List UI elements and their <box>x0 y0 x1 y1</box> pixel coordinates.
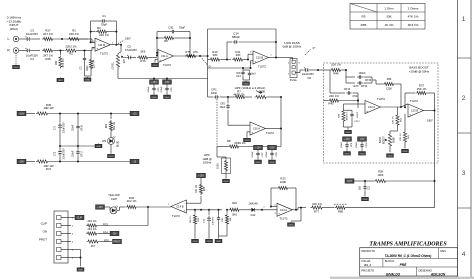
svg-text:+: + <box>96 47 98 51</box>
svg-text:47nF: 47nF <box>352 95 358 98</box>
svg-text:R47: R47 <box>46 167 52 171</box>
svg-text:2K7 1%: 2K7 1% <box>43 32 53 36</box>
svg-text:CLIP: CLIP <box>111 197 117 201</box>
svg-text:120K: 120K <box>386 88 392 91</box>
svg-text:22K 1%: 22K 1% <box>99 33 109 37</box>
phase dashed low pass out <box>305 49 311 55</box>
svg-text:1 Ohm: 1 Ohm <box>384 6 394 10</box>
svg-text:10K 1%: 10K 1% <box>393 116 395 124</box>
ground C31 <box>364 195 366 198</box>
svg-text:180°: 180° <box>427 119 433 123</box>
resistor R40 to ground <box>59 51 61 56</box>
resistor R46 <box>324 69 331 71</box>
svg-text:-15V: -15V <box>359 138 364 141</box>
svg-text:C4: C4 <box>30 57 34 61</box>
resistor R32 <box>117 209 120 211</box>
svg-text:C31: C31 <box>369 185 371 190</box>
svg-text:BLUE: BLUE <box>118 141 120 147</box>
ground stub C14A out <box>300 208 302 221</box>
svg-text:GND: GND <box>78 270 83 272</box>
resistor R36 clip ref <box>200 196 202 203</box>
capacitor C17 hang <box>218 210 220 216</box>
svg-text:GND: GND <box>165 97 170 99</box>
title block table <box>360 248 458 276</box>
svg-text:+: + <box>366 109 368 113</box>
level potentiometer 22K <box>116 54 119 69</box>
svg-text:C10 B: C10 B <box>256 56 263 60</box>
capacitor C71 <box>59 114 61 123</box>
wire L input <box>19 38 25 40</box>
svg-text:5K6: 5K6 <box>232 213 237 217</box>
svg-text:+15V: +15V <box>151 81 157 84</box>
op-amp C14 B flip <box>171 200 186 213</box>
capacitor C14 <box>226 42 228 60</box>
svg-text:2K2 1%: 2K2 1% <box>87 219 97 223</box>
svg-text:22K: 22K <box>123 58 126 63</box>
svg-text:47K 1%: 47K 1% <box>408 15 419 19</box>
svg-text:2K2 1%: 2K2 1% <box>87 227 97 231</box>
svg-text:+15V: +15V <box>198 175 204 178</box>
decoupling CP8 <box>268 145 277 150</box>
svg-text:47uF/25V: 47uF/25V <box>125 48 137 52</box>
svg-text:-: - <box>278 205 279 209</box>
svg-text:-: - <box>96 39 97 43</box>
op-amp C13 B <box>408 104 423 117</box>
decoupling CP7 <box>254 145 263 150</box>
svg-text:R8: R8 <box>227 139 231 143</box>
svg-text:CP16: CP16 <box>82 124 84 130</box>
svg-text:+: + <box>278 212 280 216</box>
output wire C14A <box>292 209 298 211</box>
connector pin 4 <box>57 240 62 244</box>
resistor R22 hang <box>226 210 228 213</box>
svg-text:CP14: CP14 <box>344 88 351 91</box>
ground LED <box>110 144 112 153</box>
bass boost dashed box <box>324 63 439 163</box>
svg-text:C14 B: C14 B <box>176 205 183 209</box>
svg-text:GND: GND <box>207 241 212 243</box>
svg-text:C91: C91 <box>168 26 174 30</box>
svg-text:C71: C71 <box>55 125 57 130</box>
capacitor CP12 <box>351 110 353 112</box>
svg-text:4u7F: 4u7F <box>353 85 359 88</box>
svg-text:OUT: OUT <box>347 180 353 183</box>
capacitor CP14 <box>329 70 331 93</box>
svg-text:+10dB @ 50Hz: +10dB @ 50Hz <box>409 69 430 73</box>
svg-text:33K: 33K <box>236 53 241 57</box>
phase label 0 first <box>202 59 207 65</box>
connector pin 1 <box>57 216 62 220</box>
svg-text:PROT: PROT <box>39 238 47 242</box>
svg-text:R5: R5 <box>164 39 168 43</box>
capacitor C12 3n3 <box>249 70 251 71</box>
LED ON blue <box>108 138 115 145</box>
svg-text:ON: ON <box>102 139 106 143</box>
svg-text:10K 1%: 10K 1% <box>196 185 198 193</box>
svg-text:GND: GND <box>224 181 229 183</box>
connector pin 5 <box>57 248 62 252</box>
wires C14B inputs <box>186 202 201 204</box>
capacitor C13 5n6 <box>242 68 244 70</box>
svg-text:10R 1W: 10R 1W <box>43 106 53 110</box>
svg-text:GND: GND <box>403 151 408 153</box>
svg-text:C12 A: C12 A <box>368 105 375 109</box>
resistor R47 power <box>36 160 49 163</box>
svg-text:GND: GND <box>193 241 198 243</box>
op-amp C14 A <box>277 203 292 216</box>
svg-text:4K99 1%: 4K99 1% <box>347 112 349 121</box>
svg-text:GND: GND <box>96 146 101 148</box>
op-amp C10 B <box>247 54 249 59</box>
net label clip out <box>96 205 105 210</box>
svg-text:R28: R28 <box>45 57 51 61</box>
svg-text:10K 1%: 10K 1% <box>312 202 322 206</box>
ground R40 <box>59 76 61 79</box>
svg-text:R62: R62 <box>106 123 108 128</box>
ground R61 <box>404 147 406 150</box>
svg-text:33pF: 33pF <box>101 23 108 27</box>
svg-text:TL072: TL072 <box>100 51 108 55</box>
svg-text:15K 1%: 15K 1% <box>417 87 427 91</box>
svg-text:GND: GND <box>14 67 19 69</box>
svg-text:PROT: PROT <box>114 241 121 244</box>
svg-text:100nF: 100nF <box>356 112 358 119</box>
svg-text:GND: GND <box>360 153 365 155</box>
svg-text:47R 1%: 47R 1% <box>62 58 65 68</box>
svg-text:C14 A: C14 A <box>280 208 287 212</box>
svg-text:CP11: CP11 <box>366 142 368 148</box>
svg-text:ON: ON <box>43 230 47 234</box>
svg-text:0°: 0° <box>313 46 316 50</box>
svg-text:+18V: +18V <box>19 113 25 116</box>
svg-text:-15V: -15V <box>269 147 274 150</box>
svg-text:5K6B: 5K6B <box>394 137 396 143</box>
svg-text:PRODUTO: PRODUTO <box>362 249 375 253</box>
svg-text:-15V: -15V <box>164 81 169 84</box>
svg-text:3K3 1%: 3K3 1% <box>408 23 419 27</box>
resistor R62 <box>110 114 112 120</box>
svg-text:TL072: TL072 <box>280 216 288 220</box>
connector pin 3 <box>57 232 62 236</box>
svg-text:R36: R36 <box>387 78 392 81</box>
svg-text:R76: R76 <box>140 59 146 63</box>
wire bass boost node <box>357 93 359 104</box>
RCA shield ground <box>15 53 17 64</box>
pot 100K vertical <box>222 158 231 174</box>
svg-text:CLIP: CLIP <box>41 222 47 226</box>
net box output <box>354 180 365 182</box>
svg-text:18nF: 18nF <box>211 91 218 95</box>
svg-text:100nF: 100nF <box>341 141 343 148</box>
resistor R35 <box>87 240 100 243</box>
svg-text:R38: R38 <box>378 170 383 174</box>
resistor R21 hang <box>194 210 196 213</box>
svg-text:REV: REV <box>441 249 447 253</box>
svg-text:2: 2 <box>462 95 466 102</box>
wire R input <box>19 50 25 52</box>
svg-text:100nF: 100nF <box>73 150 75 157</box>
ground rail wire <box>117 69 119 79</box>
svg-text:180°: 180° <box>125 37 131 41</box>
resistor R3 <box>91 31 96 33</box>
svg-text:C11 B: C11 B <box>98 43 105 47</box>
resistor R5 <box>157 37 163 39</box>
svg-text:680pF: 680pF <box>232 35 240 39</box>
ground C11A plus input <box>155 58 158 60</box>
RCA jack R <box>13 48 19 54</box>
svg-text:R35: R35 <box>104 239 109 243</box>
svg-text:+: + <box>159 58 161 62</box>
svg-text:100Hz: 100Hz <box>203 161 212 165</box>
svg-text:10K: 10K <box>230 217 232 221</box>
decoupling CP6 <box>163 80 172 85</box>
svg-text:R85: R85 <box>338 209 344 213</box>
low pass ground leg <box>251 60 254 62</box>
svg-text:L: L <box>8 37 10 41</box>
resistor R36 120K <box>372 79 376 81</box>
svg-text:R85: R85 <box>361 23 367 27</box>
svg-text:22K2 1%: 22K2 1% <box>65 44 77 48</box>
feedback R23 <box>271 206 277 208</box>
svg-text:4: 4 <box>462 251 466 258</box>
main line to R24 <box>201 209 222 211</box>
svg-text:18nF: 18nF <box>220 106 226 109</box>
svg-text:-: - <box>409 105 410 109</box>
svg-text:1uF/25V: 1uF/25V <box>213 216 215 225</box>
resistor R4 to ground <box>89 58 92 70</box>
svg-text:4K7: 4K7 <box>91 244 96 248</box>
sheet frame right border <box>457 0 459 279</box>
svg-text:6K99 1%: 6K99 1% <box>234 141 246 145</box>
resistor R37 feedback <box>404 93 406 107</box>
svg-text:-18V: -18V <box>19 161 24 164</box>
svg-text:22K 1%: 22K 1% <box>400 133 402 141</box>
svg-text:GND: GND <box>256 162 261 164</box>
svg-text:GND: GND <box>363 199 368 201</box>
mid rail ground <box>60 145 95 147</box>
net clip pin1 <box>71 217 75 219</box>
wire up right <box>434 181 436 208</box>
svg-text:22K 1%: 22K 1% <box>69 32 79 36</box>
svg-text:-: - <box>251 123 252 127</box>
svg-text:10K 1%: 10K 1% <box>190 216 192 224</box>
svg-text:TL072: TL072 <box>258 65 266 69</box>
wire to level pot <box>120 45 122 52</box>
svg-text:BLOCO: BLOCO <box>385 259 394 263</box>
svg-text:R40: R40 <box>55 60 58 65</box>
bottom edge shading <box>330 277 474 279</box>
svg-text:4K99 1%: 4K99 1% <box>233 93 245 97</box>
svg-text:R36: R36 <box>204 186 206 191</box>
svg-text:GND: GND <box>216 241 221 243</box>
svg-text:33K: 33K <box>213 53 218 57</box>
svg-text:47K: 47K <box>193 50 198 54</box>
net box R34 <box>110 231 119 236</box>
feedback loop C11A <box>156 32 158 56</box>
ground bass pot <box>389 152 391 155</box>
net -18V <box>17 159 26 164</box>
svg-text:1K 1%: 1K 1% <box>384 23 393 27</box>
resistor R85 optional <box>334 203 347 205</box>
svg-text:100K: 100K <box>217 163 220 169</box>
capacitor C72 <box>59 146 61 149</box>
svg-text:CP13: CP13 <box>365 79 372 82</box>
svg-text:22K 1%: 22K 1% <box>329 94 339 98</box>
svg-text:1: 1 <box>462 16 466 23</box>
svg-text:3n3: 3n3 <box>251 73 256 76</box>
decoupling CP5 <box>150 80 159 85</box>
svg-text:ON: ON <box>113 233 117 236</box>
svg-text:GND: GND <box>152 97 157 99</box>
phase label 180 <box>118 40 124 43</box>
svg-text:3: 3 <box>462 170 466 177</box>
svg-text:R33: R33 <box>103 223 108 227</box>
connector pin 2 <box>57 224 62 228</box>
op-amp C11 B <box>95 38 110 51</box>
hpf dashed link <box>216 99 218 147</box>
svg-text:33pF: 33pF <box>179 26 186 30</box>
svg-text:100uF/25V: 100uF/25V <box>64 122 66 134</box>
svg-text:GND: GND <box>153 65 158 67</box>
svg-text:CP12: CP12 <box>354 121 360 123</box>
wire hpf input <box>208 96 213 98</box>
ground C10A plus <box>247 131 250 133</box>
svg-text:100nF: 100nF <box>161 86 163 93</box>
svg-text:100nF: 100nF <box>73 124 75 131</box>
svg-text:FULL: FULL <box>290 78 298 82</box>
capacitor CP17 <box>77 146 79 150</box>
svg-text:C13 B: C13 B <box>411 109 418 113</box>
capacitor C31 <box>364 181 366 185</box>
svg-text:33pF: 33pF <box>86 65 89 71</box>
svg-text:2K2 1%: 2K2 1% <box>114 122 116 130</box>
svg-text:D12: D12 <box>251 213 256 217</box>
svg-text:TL072: TL072 <box>163 63 171 67</box>
decoupling CP9 <box>343 137 352 142</box>
capacitor CP16 <box>77 114 79 125</box>
svg-text:+15: +15 <box>132 113 137 116</box>
svg-text:ADILSON: ADILSON <box>430 272 446 276</box>
svg-text:C1: C1 <box>102 14 106 18</box>
capacitor CP2 <box>227 97 229 103</box>
svg-text:R75: R75 <box>185 50 191 54</box>
svg-text:(RCA): (RCA) <box>10 27 18 31</box>
svg-text:TA-8000 R6_C (1 Ohm/2 Ohms): TA-8000 R6_C (1 Ohm/2 Ohms) <box>385 254 432 258</box>
net -15 <box>130 159 139 164</box>
svg-text:C13: C13 <box>236 75 241 78</box>
svg-text:CP17: CP17 <box>82 150 84 156</box>
connector ground pins <box>71 249 81 251</box>
svg-text:100nF: 100nF <box>356 141 358 148</box>
svg-text:PROJETO: PROJETO <box>362 268 375 272</box>
svg-text:GND: GND <box>345 153 350 155</box>
svg-text:C72: C72 <box>55 151 57 156</box>
svg-text:LEVEL: LEVEL <box>112 62 115 70</box>
svg-text:PRÉ: PRÉ <box>400 262 408 267</box>
svg-text:C11 A: C11 A <box>161 54 168 58</box>
net box R35 <box>113 239 122 244</box>
svg-text:100nF: 100nF <box>358 72 366 75</box>
svg-text:100K: 100K <box>377 173 383 177</box>
svg-text:-: - <box>184 201 185 205</box>
RCA jack L <box>13 36 19 42</box>
svg-text:R34: R34 <box>103 231 108 235</box>
op-amp C12 A <box>365 101 380 114</box>
net box clip ref <box>197 173 206 178</box>
grounds under clip line <box>194 237 196 240</box>
connector pin 6 <box>57 256 62 260</box>
svg-text:0dB @ 100Hz: 0dB @ 100Hz <box>283 45 302 49</box>
low pass output wire <box>268 57 283 59</box>
decoupling CP11 <box>358 137 367 142</box>
svg-text:CLIP: CLIP <box>77 217 83 220</box>
svg-text:+15V: +15V <box>97 206 103 209</box>
wire into low pass <box>200 55 208 57</box>
svg-text:GIVALDO: GIVALDO <box>386 272 401 276</box>
svg-text:-: - <box>159 51 160 55</box>
svg-text:TL072: TL072 <box>410 99 418 103</box>
resistor R48 vertical <box>357 104 359 108</box>
svg-text:TL072: TL072 <box>377 97 385 101</box>
svg-text:-: - <box>366 102 367 106</box>
ground connector <box>80 266 82 269</box>
svg-text:GND: GND <box>85 80 90 82</box>
svg-text:R46: R46 <box>333 72 339 76</box>
resistor selection table <box>350 4 425 30</box>
svg-text:33K: 33K <box>386 15 392 19</box>
net +18V <box>17 111 26 116</box>
low pass feedback top wire <box>208 28 276 30</box>
svg-text:100nF: 100nF <box>252 151 254 158</box>
jumper FULL header <box>283 57 293 59</box>
capacitor CP10 <box>345 77 347 83</box>
svg-text:R77: R77 <box>314 209 320 213</box>
ground bass boost left <box>347 128 349 131</box>
op-amp C11 A <box>158 50 173 63</box>
svg-text:+: + <box>251 130 253 134</box>
svg-text:2K2 1%: 2K2 1% <box>127 199 137 203</box>
svg-text:22K R4: 22K R4 <box>93 59 96 68</box>
capacitor C16 hang <box>208 210 210 215</box>
svg-text:+: + <box>254 59 256 63</box>
svg-text:+: + <box>409 112 411 116</box>
svg-text:C8: C8 <box>307 76 311 80</box>
ground hpf pot <box>225 177 227 180</box>
svg-text:R24: R24 <box>232 201 237 205</box>
svg-text:100uF/25V: 100uF/25V <box>64 148 66 160</box>
svg-text:10uF/25V: 10uF/25V <box>26 32 38 36</box>
svg-text:100nF: 100nF <box>266 151 268 158</box>
svg-text:+: + <box>183 208 185 212</box>
svg-text:10K: 10K <box>222 218 224 222</box>
svg-text:R5: R5 <box>362 15 366 19</box>
svg-text:GND: GND <box>58 80 63 82</box>
svg-text:2 Ohms: 2 Ohms <box>408 6 419 10</box>
capacitor C8 <box>302 69 304 71</box>
svg-text:GND: GND <box>289 225 294 227</box>
svg-text:TL072: TL072 <box>266 131 274 135</box>
svg-text:-: - <box>254 52 255 56</box>
svg-text:GND: GND <box>109 156 114 158</box>
op-amp C10 A <box>227 120 229 125</box>
ground C13 <box>245 80 247 83</box>
svg-text:TRAMPS AMPLIFICADORES: TRAMPS AMPLIFICADORES <box>369 241 447 247</box>
svg-text:GND: GND <box>270 162 275 164</box>
resistor R52 vertical <box>396 114 399 127</box>
svg-text:100nF: 100nF <box>148 86 150 93</box>
svg-text:+15V: +15V <box>255 147 261 150</box>
svg-text:100K: 100K <box>280 180 287 184</box>
